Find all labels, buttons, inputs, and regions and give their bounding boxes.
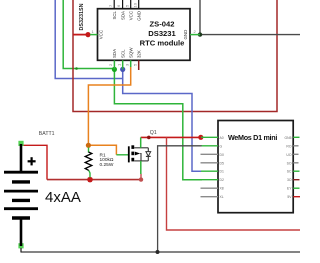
svg-text:SCL: SCL	[121, 49, 126, 58]
wire drain to A0 (bright red)	[141, 136, 201, 138]
svg-text:4xAA: 4xAA	[45, 189, 81, 206]
wire source rail (red R1 bottom to Q1 source)	[47, 179, 141, 181]
wire SDA (green: pin to WeMos D2)	[114, 69, 202, 179]
U2 left pin D2 (green leg)	[201, 178, 224, 182]
U2 right pin D8 (green stub)	[287, 170, 300, 174]
U2 right pin GND (green stub)	[285, 136, 300, 140]
U1 top pin labels	[112, 10, 142, 20]
U1 title text	[140, 19, 185, 47]
svg-text:D1: D1	[220, 170, 224, 174]
junction dot SCL pin (blue)	[120, 67, 125, 72]
svg-text:3O: 3O	[287, 178, 292, 182]
wire battery+ (red from BATT1 to R1 bottom rail)	[21, 145, 47, 179]
wire SCL (blue: pin to WeMos D1)	[123, 69, 201, 171]
wire SQW orange (SQW pin to R1 top and Q1 gate)	[88, 67, 130, 155]
svg-text:DS3231SN: DS3231SN	[79, 3, 85, 30]
wire WeMos G to ground bus (black)	[158, 146, 202, 252]
U1 bottom pin SQW leg (green)	[124, 60, 130, 67]
gate leg (green)	[116, 154, 128, 156]
wire drain branch down to bottom right (red)	[167, 137, 301, 230]
U2 right pin 5V (red wire stub)	[287, 195, 300, 199]
body tie	[139, 154, 142, 161]
body diode	[147, 148, 149, 152]
svg-text:D5: D5	[220, 161, 224, 165]
wire Q1 source leg lower (red)	[140, 174, 142, 180]
svg-text:10: 10	[132, 2, 137, 7]
svg-text:32K: 32K	[137, 50, 142, 58]
U1 bottom pin labels	[112, 47, 142, 58]
U1 bottom pin SCL leg (green)	[116, 60, 122, 69]
junction dot A0 pin (red)	[198, 135, 203, 140]
svg-text:SDA: SDA	[120, 11, 125, 20]
resistor labels R1 100kΩ 0.25W	[100, 152, 114, 168]
transistor Q1 (N-MOSFET with body diode)	[116, 137, 150, 174]
op-amp U1: ZS-042 DS3231 RTC module box	[98, 9, 191, 61]
svg-text:ZS-042: ZS-042	[150, 19, 175, 28]
U2 left pin D1 (green leg)	[201, 170, 224, 174]
U1 left pin VCC leg (green, pin 1)	[90, 29, 104, 39]
junction dot SQW/R1/gate (orange)	[86, 143, 91, 148]
wire VCC to U1 (bright red)	[73, 34, 88, 36]
svg-text:D2: D2	[220, 178, 224, 182]
svg-text:GN5: GN5	[285, 136, 292, 140]
U2 left pin A0 (green leg)	[201, 136, 224, 140]
svg-text:VCC: VCC	[99, 30, 104, 39]
junction dot red bendpoint	[147, 136, 151, 140]
U2 right pin TX (green stub)	[287, 187, 300, 191]
U2 right pin RST (gray stub)	[286, 144, 298, 148]
svg-text:SC: SC	[287, 170, 292, 174]
U2 left pin D0 (gray stub)	[201, 153, 224, 157]
svg-text:D0: D0	[220, 153, 224, 157]
svg-text:X8: X8	[220, 187, 224, 191]
junction dot green bendpoint	[75, 67, 78, 70]
svg-text:A0: A0	[220, 136, 224, 140]
ground bus (black bottom)	[21, 251, 300, 253]
U2 left pin G (green leg)	[202, 144, 223, 148]
junction dot bus (black)	[156, 250, 160, 254]
svg-text:XL: XL	[220, 195, 224, 199]
gate bar	[128, 146, 130, 162]
svg-text:0.25W: 0.25W	[100, 162, 114, 168]
junction dot R1 bottom (red)	[87, 177, 93, 183]
wire GND black (vertical from top + to right edge)	[200, 0, 300, 35]
svg-text:SQW: SQW	[129, 47, 134, 58]
svg-text:Q1: Q1	[150, 130, 157, 136]
source leg (green)	[140, 161, 142, 174]
svg-text:SDA: SDA	[112, 49, 117, 58]
svg-text:EY: EY	[287, 187, 292, 191]
junction dot SDA pin (green)	[112, 67, 117, 72]
svg-text:RO: RO	[286, 144, 291, 148]
U1 bottom pin SDA leg (green)	[108, 60, 114, 69]
junction dot VCC pin (red)	[85, 32, 90, 37]
junction dot Q1 source (red)	[139, 177, 143, 181]
U2 left pin D5 (gray stub)	[201, 161, 224, 165]
svg-text:BATT1: BATT1	[39, 131, 55, 137]
battery BATT1	[4, 141, 38, 253]
U1 top pin SCL (pin 7)	[108, 0, 114, 9]
wire VCC rail (dark red)	[73, 0, 277, 112]
resistor R1	[85, 148, 92, 178]
svg-text:RTC module: RTC module	[140, 38, 185, 47]
svg-text:SO: SO	[287, 161, 292, 165]
body arrow	[135, 152, 140, 156]
svg-text:WeMos D1 mini: WeMos D1 mini	[228, 133, 277, 142]
svg-text:UO: UO	[286, 153, 291, 157]
U1 bottom pin 32K leg (dark red, unconnected)	[132, 60, 138, 70]
svg-text:GND: GND	[137, 11, 142, 21]
svg-text:DS3231: DS3231	[148, 29, 176, 38]
U2 right pin D7 (gray stub)	[287, 161, 299, 165]
op-amp U2: WeMos D1 mini box	[218, 121, 293, 213]
junction dot GND pin (dark)	[198, 32, 202, 36]
U2 left pin D3 (gray stub)	[201, 187, 224, 191]
U1 top pin SDA (pin 6)	[116, 0, 122, 9]
svg-text:5V: 5V	[287, 195, 292, 199]
channel blocks	[131, 145, 134, 149]
U2 right pin 3V3 (dark red stub)	[287, 178, 300, 182]
U2 right pin D6 (gray stub)	[286, 153, 298, 157]
svg-text:G: G	[220, 144, 223, 148]
U1 right pin GND leg (green, pin 2)	[183, 29, 200, 39]
U2 left pin D4 (gray stub)	[201, 195, 224, 199]
wire SDA-left (green vertical from top)	[63, 0, 114, 69]
U1 top pin GND (pin 10)	[132, 0, 138, 9]
wire SCL-left (blue vertical from top)	[55, 0, 123, 79]
drain line	[134, 147, 148, 149]
svg-text:SCL: SCL	[112, 10, 117, 19]
source line	[134, 160, 148, 162]
drain leg (green)	[140, 137, 142, 147]
svg-text:VCC: VCC	[129, 11, 134, 20]
U1 top pin VCC (pin 5)	[124, 0, 130, 9]
